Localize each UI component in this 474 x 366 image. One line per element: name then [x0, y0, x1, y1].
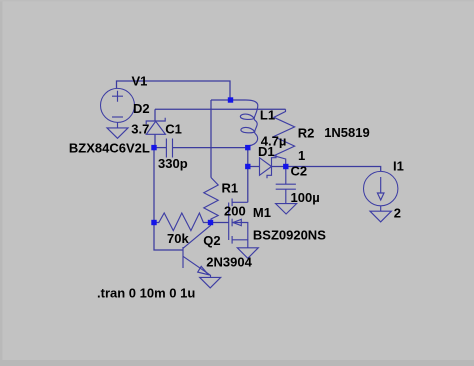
svg-text:L1: L1 [260, 108, 275, 123]
svg-text:.tran 0 10m 0 1u: .tran 0 10m 0 1u [97, 286, 195, 301]
svg-text:I1: I1 [393, 159, 404, 174]
svg-text:70k: 70k [167, 231, 189, 246]
svg-text:1: 1 [298, 148, 305, 163]
svg-text:3.7: 3.7 [131, 122, 149, 137]
svg-text:M1: M1 [253, 205, 271, 220]
svg-text:D2: D2 [133, 101, 150, 116]
svg-text:R2: R2 [298, 126, 315, 141]
svg-text:C1: C1 [165, 122, 182, 137]
svg-text:BSZ0920NS: BSZ0920NS [253, 228, 326, 243]
svg-text:BZX84C6V2L: BZX84C6V2L [69, 141, 150, 156]
svg-text:Q2: Q2 [203, 233, 220, 248]
svg-text:100µ: 100µ [291, 190, 320, 205]
svg-text:2N3904: 2N3904 [206, 254, 252, 269]
svg-text:1N5819: 1N5819 [324, 125, 370, 140]
svg-text:200: 200 [224, 203, 246, 218]
svg-text:R1: R1 [222, 180, 239, 195]
svg-text:330p: 330p [158, 156, 188, 171]
svg-text:2: 2 [394, 205, 401, 220]
svg-text:C2: C2 [291, 164, 308, 179]
svg-text:V1: V1 [132, 74, 148, 89]
svg-text:D1: D1 [258, 144, 275, 159]
